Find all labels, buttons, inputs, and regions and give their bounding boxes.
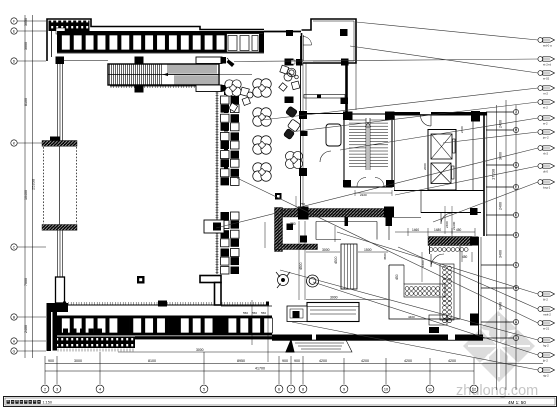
svg-text:450: 450 (462, 255, 468, 259)
room wall y212 (421, 212, 481, 214)
svg-text:dt-0: dt-0 (543, 169, 548, 173)
grid bubble 3 (bottom) (53, 385, 61, 393)
grid bubble 11 (bottom) (426, 385, 434, 393)
column U1 (298, 207, 309, 220)
bar counter (341, 244, 357, 289)
main stair room (344, 114, 392, 187)
seat pair extra 2 (221, 267, 240, 275)
finish tag 9 (538, 164, 555, 174)
bar top hatched band (428, 237, 472, 246)
side console seat (204, 220, 224, 233)
grid bubble 1 (right) (481, 335, 519, 340)
counter chain mid row 1 (405, 287, 440, 291)
lobby square 1 (137, 276, 145, 284)
U-room hatched wall horizontal (283, 209, 394, 218)
elevator lobby wall (420, 190, 422, 213)
finish tag 7 (538, 130, 555, 140)
beam comb top (63, 301, 269, 307)
top-right room door arc (303, 37, 312, 46)
top wall door notch (56, 28, 65, 34)
hatched band K (42, 141, 77, 147)
elevator 2 (431, 163, 454, 184)
flower table 1 (253, 79, 272, 98)
band furniture marks (63, 329, 102, 335)
seat pair extra (221, 249, 240, 266)
corridor door arc (421, 116, 432, 127)
svg-text:12: 12 (472, 388, 476, 392)
misc wall x429 (429, 246, 431, 254)
leader line 16 (292, 322, 538, 370)
inner dim vlines (252, 221, 335, 345)
lounge sofa (326, 124, 341, 146)
svg-text:10: 10 (384, 388, 388, 392)
leader line 7 (443, 132, 538, 143)
grid bubble 9 (bottom) (340, 385, 348, 393)
svg-text:3: 3 (56, 388, 58, 392)
right wall block (470, 314, 479, 326)
small tables seat column (224, 92, 228, 169)
svg-text:4: 4 (99, 388, 101, 392)
svg-text:8100: 8100 (148, 359, 156, 363)
svg-text:17200: 17200 (491, 168, 496, 180)
wall below elevators (394, 190, 484, 192)
svg-text:550: 550 (252, 311, 257, 315)
escalator column bottom (135, 85, 144, 93)
title bar frame (4, 397, 557, 407)
left mullion lower (58, 231, 63, 278)
svg-text:3000: 3000 (74, 359, 82, 363)
stair door arcs (357, 178, 384, 187)
grid bubble D (left) (11, 58, 46, 64)
svg-text:1500: 1500 (364, 248, 372, 252)
reception desk (287, 303, 359, 322)
bar room inner edge (459, 246, 461, 319)
svg-text:8: 8 (302, 388, 304, 392)
svg-text:3400: 3400 (499, 152, 503, 160)
svg-text:3400: 3400 (499, 302, 503, 310)
leader line 14 (280, 270, 538, 340)
leader line 5 (290, 102, 538, 132)
finish tag 4 (538, 86, 555, 96)
svg-text:w-02: w-02 (543, 76, 550, 80)
stair rail comb (110, 85, 196, 89)
column y212 (470, 208, 478, 215)
svg-text:25200: 25200 (31, 178, 36, 190)
inner dim texts (196, 222, 399, 352)
finish tag 8 (538, 146, 555, 156)
leader line 13 (237, 178, 538, 323)
finish tag 13 (538, 321, 555, 331)
svg-text:4200: 4200 (361, 359, 369, 363)
svg-text:900: 900 (294, 359, 300, 363)
leader line 3 (350, 46, 538, 73)
bottom parapet dotted band (57, 337, 135, 349)
column lounge (341, 98, 349, 105)
svg-text:3000: 3000 (322, 248, 330, 252)
svg-text:jb-2: jb-2 (542, 358, 548, 362)
bar dim lines (395, 228, 475, 262)
dim col x445 (445, 206, 452, 234)
bottom dim lines (45, 364, 543, 372)
flower table 2 (253, 108, 272, 127)
svg-text:6: 6 (278, 388, 280, 392)
column D1 (56, 57, 65, 65)
svg-text:5: 5 (203, 388, 205, 392)
chairs cluster mid (229, 87, 253, 112)
svg-text:3400: 3400 (499, 250, 503, 258)
svg-text:750: 750 (300, 202, 305, 206)
bar black block (429, 327, 439, 333)
bar column (470, 237, 479, 246)
svg-text:1: 1 (515, 336, 517, 340)
svg-text:7: 7 (290, 388, 292, 392)
counter chain mid row 2 (405, 292, 440, 296)
band K junction block (50, 137, 60, 145)
L-wall reception (200, 276, 221, 306)
svg-text:41700: 41700 (255, 367, 265, 371)
svg-text:3050: 3050 (24, 18, 28, 26)
grid bubble G (right) (486, 162, 519, 167)
leader line 1 (356, 22, 538, 40)
bar door arc (431, 254, 444, 267)
door frame stair (345, 217, 349, 226)
grid bubble K (left) (11, 140, 46, 146)
svg-text:2400: 2400 (24, 325, 28, 333)
grid bubble 7 (bottom) (287, 385, 295, 393)
right dim lines (497, 100, 507, 390)
elevator 1 (431, 134, 455, 159)
dark window fills (121, 318, 225, 333)
svg-text:11: 11 (428, 388, 432, 392)
left pier column (56, 277, 65, 303)
sofa cluster top (279, 65, 300, 91)
inner dim hlines (118, 252, 388, 352)
svg-text:9: 9 (343, 388, 345, 392)
left mullion wall (58, 64, 63, 141)
grid bubble J (right) (486, 109, 519, 114)
left dim texts (24, 18, 36, 333)
lobby square 2 (275, 193, 282, 200)
right grid line (515, 105, 517, 390)
svg-text:2220: 2220 (360, 193, 367, 197)
heavy wall x346 (345, 63, 348, 114)
svg-text:1480: 1480 (434, 228, 441, 232)
title text left (7, 400, 53, 405)
svg-text:4500: 4500 (334, 256, 338, 264)
stair column SW (343, 180, 351, 187)
top window band (57, 31, 264, 53)
finish tag 15 (538, 353, 555, 363)
svg-text:1600: 1600 (421, 260, 425, 267)
leader line 11 (337, 232, 538, 294)
svg-text:wd-0 a: wd-0 a (543, 43, 552, 47)
column reception (293, 311, 300, 318)
svg-text:E: E (515, 213, 517, 217)
corridor line y218 (394, 217, 421, 219)
entry steps (286, 340, 352, 352)
svg-text:2400: 2400 (445, 221, 449, 228)
bar dim texts (412, 228, 468, 259)
finish tag 10 (538, 180, 555, 190)
svg-text:550: 550 (261, 311, 266, 315)
bar room right wall (479, 237, 482, 340)
svg-text:23200: 23200 (452, 221, 456, 230)
landing lower (196, 85, 226, 92)
hatched band K2 (42, 225, 77, 231)
misc wall x389 top (388, 217, 390, 240)
column top corridor (286, 30, 293, 36)
svg-text:4400: 4400 (408, 315, 415, 319)
svg-text:4200: 4200 (404, 359, 412, 363)
column W1 (285, 97, 294, 104)
flower table 5 (225, 80, 241, 96)
corridor column right (471, 111, 480, 122)
svg-text:780: 780 (290, 222, 296, 226)
svg-text:3000: 3000 (24, 42, 28, 50)
column TR1 (340, 29, 348, 36)
svg-text:2400: 2400 (499, 202, 503, 210)
grid bubble C (left) (11, 244, 46, 250)
finish tag 12 (538, 307, 555, 317)
svg-text:450: 450 (456, 228, 462, 232)
left dim lines (25, 15, 33, 358)
svg-text:2000: 2000 (423, 163, 427, 170)
desk inner lines (310, 310, 356, 314)
finish tag 1 (538, 38, 555, 48)
leader line 6 (340, 118, 538, 150)
stair column NE (385, 112, 395, 121)
corridor wall left of stair (306, 113, 344, 115)
column U2 extension (386, 217, 393, 226)
svg-text:F: F (13, 19, 15, 23)
escalator body (108, 64, 252, 85)
column U4 (300, 236, 307, 243)
svg-text:msk-2: msk-2 (543, 312, 551, 316)
bottom wall right part (135, 335, 483, 341)
U-room hatched wall vertical (275, 208, 283, 252)
svg-text:4500: 4500 (383, 253, 387, 260)
wall x301 (301, 36, 304, 207)
grid bubble F (left) (11, 18, 46, 24)
grid bubble 12 (bottom) (470, 385, 478, 393)
grid bubble 2 (bottom) (41, 385, 49, 393)
svg-text:w-21: w-21 (543, 326, 550, 330)
finish tag 2 (538, 57, 555, 67)
svg-text:900: 900 (282, 359, 288, 363)
counter outline (440, 264, 454, 320)
leader line 8 (216, 148, 538, 228)
grid bubble 6 (bottom) (275, 385, 283, 393)
bottom window band (57, 316, 272, 336)
grid bubble D (right) (486, 232, 519, 237)
svg-text:10400: 10400 (24, 190, 28, 200)
svg-text:F: F (515, 185, 517, 189)
stair column SE (386, 180, 394, 187)
grid bubble F (right) (486, 184, 519, 189)
spoke circle (276, 272, 290, 288)
bottom wing left wall (47, 303, 52, 351)
grid bubble 5 (bottom) (200, 385, 208, 393)
column W2 (299, 111, 307, 119)
column W3 (299, 168, 307, 176)
counter chain top row (429, 248, 468, 252)
grid bubble B (right) (481, 285, 519, 290)
grid bubble C (right) (481, 262, 519, 267)
leader line 10 (433, 182, 538, 222)
finish tag 6 (538, 116, 555, 126)
watermark logo (463, 311, 535, 382)
svg-text:8950: 8950 (237, 359, 245, 363)
leader line 15 (313, 282, 538, 355)
svg-text:rjq-2: rjq-2 (543, 373, 549, 377)
lounge walls (306, 63, 356, 110)
column TR2b (296, 59, 303, 66)
svg-text:8100: 8100 (24, 98, 28, 106)
double circle (307, 275, 319, 287)
top parapet dotted band (49, 21, 90, 32)
svg-text:4200: 4200 (319, 359, 327, 363)
stair landing top (196, 57, 226, 64)
leader line 4 (262, 88, 538, 120)
seat column upper (221, 96, 240, 185)
finish tag 11 (538, 292, 555, 302)
corridor wall right of stair (392, 112, 487, 116)
corridor wall top (264, 31, 301, 33)
column TR2 (285, 59, 294, 66)
corridor wall x394 (394, 116, 396, 190)
stair column NW (343, 112, 353, 121)
right dim texts (491, 120, 503, 310)
column W2b (301, 131, 308, 136)
svg-text:2: 2 (44, 388, 46, 392)
leader line 9 (395, 166, 538, 195)
svg-text:550: 550 (243, 311, 248, 315)
misc dim ticks (240, 190, 422, 316)
grid bubble A (left) (11, 338, 46, 344)
curtain center line (59, 147, 61, 225)
parapet comb (58, 349, 133, 352)
armchair pair right (283, 106, 300, 139)
grid bubble G (left) (11, 348, 46, 354)
grid bubble 4 (bottom) (96, 385, 104, 393)
right outer wall (484, 112, 487, 236)
flower table 3 (253, 136, 272, 155)
svg-text:G: G (13, 349, 16, 353)
svg-text:w-2: w-2 (543, 121, 548, 125)
grid drop line x268 (267, 303, 269, 362)
console table (304, 95, 345, 99)
door arc y212 (441, 213, 452, 224)
misc wall x404 (403, 265, 405, 284)
wall line y306 (221, 305, 272, 307)
finish tag 16 (538, 368, 555, 378)
grid bubble 10 (bottom) (382, 385, 390, 393)
svg-text:hg-2: hg-2 (543, 343, 549, 347)
seat column lower (221, 212, 240, 247)
bottom dim ticks (45, 352, 474, 384)
bar room outline (389, 265, 460, 319)
grid bubble E (left) (11, 28, 46, 34)
svg-text:4500: 4500 (299, 262, 303, 270)
top band white section (227, 34, 265, 53)
bottom dim texts (48, 359, 456, 371)
top-right room walls (302, 19, 357, 63)
flower table 4 (253, 163, 272, 182)
grid bubble B (left) (11, 314, 46, 320)
svg-text:3000: 3000 (196, 348, 204, 352)
lounge door arc (320, 151, 331, 162)
round column symbol (287, 68, 298, 79)
top wing outer wall (47, 19, 264, 61)
elevator shaft walls (428, 130, 456, 191)
finish tag 5 (538, 100, 555, 110)
counter chain right col 1 (443, 266, 447, 323)
corridor inner wall (472, 116, 474, 191)
pen leader symbol (227, 58, 235, 67)
flower table right 2 (285, 151, 302, 168)
counter chain right col 2 (448, 266, 452, 323)
svg-text:1460: 1460 (412, 228, 419, 232)
grid bubble A (right) (481, 319, 519, 324)
center rail (216, 92, 219, 274)
corridor inner line (64, 60, 108, 62)
curtain dashed box (44, 147, 77, 224)
leader line 12 (398, 247, 538, 309)
grid bubble E (right) (486, 212, 519, 217)
svg-text:rb-2: rb-2 (543, 151, 549, 155)
svg-text:900: 900 (48, 359, 54, 363)
misc tiny dims (243, 126, 464, 319)
column U3 (287, 224, 294, 231)
svg-text:450: 450 (395, 274, 399, 280)
svg-text:2400: 2400 (460, 126, 464, 133)
inner room outline (316, 222, 377, 240)
svg-text:4M 1: 50: 4M 1: 50 (508, 400, 526, 405)
svg-text:jm-2: jm-2 (542, 135, 549, 139)
svg-text:7000: 7000 (24, 278, 28, 286)
grid bubble H (right) (486, 127, 519, 132)
leader line 2 (234, 59, 538, 62)
flower diamonds (229, 84, 297, 175)
svg-text:st-2+d: st-2+d (543, 62, 552, 66)
svg-text:bl-2: bl-2 (543, 297, 548, 301)
svg-text:4200: 4200 (448, 359, 456, 363)
top band inner edge (57, 52, 264, 54)
grid bubble 8 (bottom) (299, 385, 307, 393)
svg-text:1:150: 1:150 (43, 401, 53, 405)
escalator column top (135, 57, 144, 65)
bottom-left corner wall (48, 303, 68, 351)
top wing left inner wall (51, 31, 53, 57)
svg-text:bxg-1: bxg-1 (543, 185, 551, 189)
svg-text:3000: 3000 (330, 296, 338, 300)
column TR3 (341, 59, 349, 66)
column U2 (384, 207, 394, 218)
svg-text:st-2: st-2 (543, 105, 548, 109)
svg-text:m-2: m-2 (543, 91, 548, 95)
finish tag 14 (538, 338, 555, 348)
finish tag 3 (538, 71, 555, 81)
bar small desk (429, 315, 447, 325)
U-room bottom hatch (275, 244, 318, 250)
